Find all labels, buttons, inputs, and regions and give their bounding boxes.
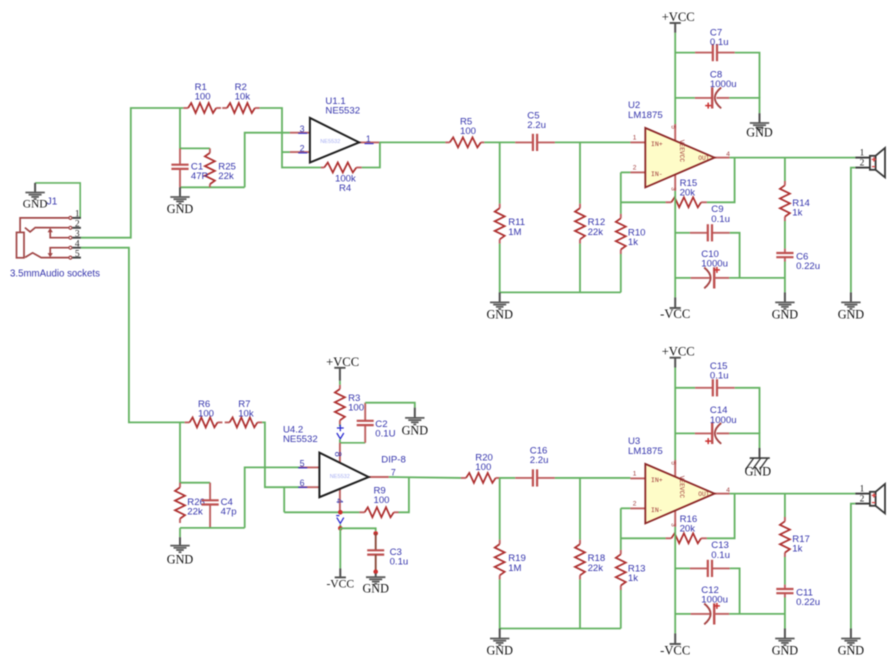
wire R14 branch down (784, 158, 786, 181)
capacitor C9 (690, 204, 730, 241)
wire C15 left (675, 387, 695, 389)
wire +VCC trunk 2 (674, 368, 676, 461)
resistor R4 (321, 163, 362, 173)
resistor R19 (495, 540, 526, 580)
svg-text:OUT: OUT (698, 155, 709, 162)
wire R18 branch (579, 478, 581, 540)
ground (772, 629, 799, 658)
svg-text:0.1u: 0.1u (710, 37, 729, 48)
wire C12 left (675, 613, 690, 615)
wire C3 branch (340, 528, 375, 531)
resistor R20 (461, 453, 500, 483)
net arrow V- (336, 516, 344, 524)
svg-text:GND: GND (746, 125, 773, 139)
resistor R2 (222, 82, 260, 113)
wire C7 left (675, 52, 695, 54)
svg-text:100: 100 (475, 462, 491, 473)
wire C2 bottom rail (340, 442, 365, 444)
svg-text:0.1u: 0.1u (711, 214, 730, 225)
power amp U3 LM1875 (630, 460, 730, 527)
wire jack pin3 to R1 (left channel input) (81, 108, 183, 238)
svg-text:IN+: IN+ (651, 477, 663, 484)
svg-text:1M: 1M (508, 563, 521, 574)
svg-text:10k: 10k (238, 409, 254, 420)
ground (838, 292, 865, 321)
wire R10 bottom (620, 254, 622, 292)
svg-text:4: 4 (75, 240, 80, 250)
svg-text:1: 1 (633, 471, 637, 478)
wire C8 right (729, 98, 759, 113)
svg-text:2: 2 (860, 159, 865, 169)
wire C7 right to GND rail (735, 53, 760, 98)
svg-text:GND: GND (167, 202, 194, 216)
wire R19 bottom (499, 580, 501, 629)
ground (362, 574, 389, 596)
wire jack pin4 down-trunk to R6 (right channel input) (81, 248, 185, 423)
wire R11 bottom (499, 244, 501, 293)
ground (23, 183, 48, 211)
wire R3 bottom (339, 425, 341, 427)
power symbol +VCC (662, 345, 695, 368)
svg-text:7: 7 (391, 467, 396, 477)
svg-text:VEEVCC: VEEVCC (678, 476, 685, 499)
capacitor C8 (polarized) (695, 70, 737, 109)
svg-text:2: 2 (633, 501, 637, 508)
wire R19 branch (499, 478, 501, 540)
wire input node down to C1/R25 top (180, 108, 210, 148)
svg-text:0.22u: 0.22u (796, 597, 820, 608)
svg-text:LM1875: LM1875 (628, 446, 663, 457)
svg-text:5: 5 (669, 461, 676, 465)
resistor R14 (780, 181, 811, 221)
capacitor C4 (202, 483, 237, 528)
resistor R11 (495, 204, 525, 244)
connector J1 3.5mm audio socket (17, 210, 81, 260)
wire C8 left (675, 97, 695, 99)
wire C16 to U3 IN+ (555, 477, 631, 479)
svg-text:1: 1 (366, 134, 371, 144)
svg-text:0.1u: 0.1u (710, 371, 729, 382)
svg-text:3: 3 (669, 187, 676, 191)
resistor R18 (575, 540, 605, 580)
capacitor C15 (695, 361, 735, 396)
svg-text:J1: J1 (47, 197, 58, 208)
resistor R26 (175, 483, 205, 523)
wire IN- wire (621, 171, 631, 173)
svg-text:0.22u: 0.22u (796, 261, 820, 272)
wire C10 right to R14 branch (729, 277, 785, 279)
wire R17 to C11 (784, 557, 786, 585)
wire C9 right down (730, 233, 740, 278)
svg-text:1M: 1M (508, 227, 521, 238)
wire R18 bottom (579, 580, 581, 629)
wire speaker return (851, 168, 855, 293)
svg-text:1000u: 1000u (710, 415, 737, 426)
junction (338, 526, 343, 531)
svg-text:DIP-8: DIP-8 (381, 454, 406, 465)
svg-text:1k: 1k (792, 544, 802, 555)
wire C5 to LM1875 IN+ (555, 141, 631, 143)
capacitor C1 (171, 148, 208, 187)
wire R26/C4 bottom rail (180, 527, 245, 529)
svg-text:R4: R4 (339, 183, 352, 194)
power amp U2 LM1875 (630, 124, 730, 191)
svg-text:22k: 22k (218, 171, 234, 182)
wire +VCC to R3 (339, 381, 341, 385)
resistor R7 (225, 399, 263, 427)
svg-text:NE5532: NE5532 (283, 434, 318, 445)
svg-text:-VCC: -VCC (660, 307, 690, 321)
connector J1 ground wire (35, 183, 80, 218)
junction (338, 510, 343, 515)
svg-text:8: 8 (333, 452, 343, 457)
svg-text:GND: GND (486, 307, 513, 321)
svg-text:IN-: IN- (651, 507, 663, 514)
wire speaker 2 return (851, 504, 855, 629)
svg-text:1k: 1k (628, 237, 638, 248)
wire op-amp output to R5 (379, 141, 445, 143)
capacitor C7 (695, 28, 735, 62)
wire R15 right up to output (707, 158, 735, 203)
junction (373, 531, 378, 536)
svg-text:3: 3 (75, 230, 80, 240)
ground (486, 292, 513, 321)
svg-text:20k: 20k (680, 188, 696, 199)
wire bottom rail to ground (500, 291, 621, 293)
op-amp U1.1 NE5532 (290, 118, 379, 163)
capacitor C10 (polarized) (691, 249, 730, 289)
capacitor C2 (357, 403, 396, 443)
wire trunk to R26/C4 (180, 422, 210, 482)
svg-text:GND: GND (167, 553, 194, 567)
wire C2 top to GND (365, 403, 415, 408)
wire U3 VEE down to -VCC (674, 527, 676, 634)
wire pin2 branch (282, 151, 290, 153)
capacitor C13 (690, 540, 730, 577)
wire GND stub (179, 528, 181, 537)
wire rail up to op-amp pin3 (245, 133, 290, 188)
wire feedback rail (284, 511, 359, 513)
svg-text:100: 100 (195, 92, 211, 103)
resistor R16 (666, 514, 707, 543)
svg-text:100: 100 (198, 409, 214, 420)
svg-text:5: 5 (300, 458, 305, 468)
svg-text:0.1u: 0.1u (711, 550, 730, 561)
capacitor C5 (515, 111, 555, 151)
svg-text:2.2u: 2.2u (530, 455, 549, 466)
svg-text:1k: 1k (792, 208, 802, 219)
wire R9 right up to pin7 output (399, 477, 409, 512)
svg-text:IN-: IN- (651, 171, 663, 178)
wire R16 right up to output (707, 494, 735, 539)
ground (486, 629, 513, 658)
capacitor C3 (367, 533, 408, 571)
ground (402, 408, 429, 438)
svg-text:IN+: IN+ (651, 141, 663, 148)
svg-text:OUT: OUT (698, 491, 709, 498)
op-amp U4.2 NE5532 (299, 443, 388, 513)
svg-text:-VCC: -VCC (660, 644, 690, 658)
svg-text:100: 100 (348, 403, 364, 414)
svg-text:2: 2 (75, 220, 80, 230)
ground (838, 629, 865, 658)
wire C14 right (729, 433, 759, 448)
resistor R12 (575, 204, 605, 244)
capacitor C6 (776, 249, 820, 272)
svg-text:+VCC: +VCC (662, 345, 695, 359)
wire to pin8 (339, 439, 341, 443)
wire R2 to inverting input / feedback rail (260, 108, 321, 168)
svg-text:5: 5 (669, 125, 676, 129)
resistor R17 (780, 517, 810, 557)
wire R5 out to C5 with R11 tee (484, 141, 515, 143)
svg-text:6: 6 (300, 478, 305, 488)
svg-text:NE5532: NE5532 (325, 106, 360, 117)
net arrow marks (337, 425, 344, 439)
svg-text:GND: GND (838, 307, 865, 321)
svg-text:1000u: 1000u (701, 258, 728, 269)
svg-text:VEEVCC: VEEVCC (678, 140, 685, 163)
svg-text:NE5532: NE5532 (330, 474, 350, 480)
svg-text:1: 1 (860, 485, 865, 495)
wire C13 right down (730, 568, 740, 614)
svg-text:GND: GND (23, 199, 48, 211)
svg-text:GND: GND (402, 423, 429, 437)
ground (167, 187, 194, 216)
resistor R9 (359, 486, 398, 518)
svg-text:22k: 22k (187, 506, 203, 517)
svg-text:GND: GND (486, 644, 513, 658)
power symbol -VCC (326, 569, 354, 591)
wire IN- node down (620, 172, 622, 214)
wire C9 left (675, 232, 690, 234)
resistor R6 (185, 399, 223, 427)
wire pin7 output to R20 (389, 476, 461, 479)
wire C14 left (675, 432, 695, 434)
power symbol -VCC (660, 297, 690, 321)
wire +VCC trunk (674, 33, 676, 124)
svg-text:3.5mmAudio sockets: 3.5mmAudio sockets (10, 268, 100, 279)
wire C6 bottom (784, 262, 786, 293)
svg-text:1000u: 1000u (701, 594, 728, 605)
resistor R5 (445, 116, 484, 147)
wire C15 right (735, 388, 760, 434)
speaker LS2 (855, 484, 885, 514)
svg-text:22k: 22k (588, 563, 604, 574)
svg-text:GND: GND (745, 465, 772, 479)
svg-text:100: 100 (460, 126, 476, 137)
wire bottom rail 2 (500, 628, 621, 630)
svg-text:+VCC: +VCC (326, 355, 359, 369)
wire U3 IN- node down (620, 508, 622, 550)
svg-text:22k: 22k (588, 227, 604, 238)
wire R20 to C16 (499, 477, 515, 479)
wire R13 bottom (620, 590, 622, 629)
wire R14 to C6 (784, 221, 786, 249)
svg-text:1000u: 1000u (710, 79, 737, 90)
svg-text:2.2u: 2.2u (527, 120, 546, 131)
wire feedback R15 left (621, 201, 666, 203)
wire R4 to op-amp output (362, 142, 380, 167)
wire U3 IN- wire (621, 507, 631, 509)
wire R11 branch (499, 142, 501, 203)
wire R12 bottom (579, 244, 581, 293)
svg-text:100: 100 (374, 495, 390, 506)
ground (167, 537, 194, 566)
svg-text:3: 3 (669, 523, 676, 527)
capacitor C16 (515, 446, 555, 487)
resistor R15 (666, 178, 707, 207)
capacitor C14 (polarized) (695, 405, 737, 444)
wire output to speaker 2 (730, 493, 856, 495)
svg-text:LM1875: LM1875 (628, 110, 663, 121)
svg-text:4: 4 (334, 498, 344, 503)
svg-text:1: 1 (633, 135, 637, 142)
capacitor C11 (776, 585, 820, 608)
resistor R10 (616, 214, 646, 254)
svg-text:2: 2 (633, 165, 637, 172)
ground (772, 292, 799, 321)
power symbol +VCC (326, 355, 359, 381)
svg-text:1k: 1k (628, 573, 638, 584)
resistor R1 (183, 82, 221, 113)
svg-text:1: 1 (860, 149, 865, 159)
wire output to speaker (730, 157, 856, 159)
wire R7 to inverting input / feedback (262, 422, 299, 487)
junction (373, 569, 378, 574)
wire C1/R25 bottom rail (180, 186, 245, 188)
wire pin4 to -VCC (339, 525, 341, 529)
speaker LS1 (855, 148, 885, 178)
wire R17 branch down (784, 494, 786, 517)
ground (746, 113, 773, 139)
wire feedback R16 left (621, 537, 666, 539)
wire rail up to op-amp pin5 (245, 467, 300, 528)
svg-text:GND: GND (772, 644, 799, 658)
chassis ground (745, 448, 772, 479)
svg-text:3: 3 (300, 124, 305, 134)
svg-text:2: 2 (860, 495, 865, 505)
wire pin6 down branch (283, 487, 285, 512)
resistor R3 (335, 385, 364, 425)
svg-text:10k: 10k (235, 92, 251, 103)
svg-text:NE5532: NE5532 (320, 139, 340, 145)
capacitor C12 (polarized) (691, 585, 730, 625)
svg-text:+VCC: +VCC (662, 10, 695, 24)
resistor R25 (205, 148, 236, 187)
svg-text:1: 1 (75, 210, 80, 220)
svg-text:0.1U: 0.1U (375, 429, 395, 440)
svg-text:47P: 47P (191, 171, 208, 182)
wire C10 left (675, 277, 690, 279)
svg-text:5: 5 (75, 249, 80, 259)
power symbol +VCC (662, 10, 695, 33)
svg-text:2: 2 (300, 143, 305, 153)
wire VEE down to -VCC (674, 191, 676, 298)
svg-text:20k: 20k (680, 524, 696, 535)
svg-text:-VCC: -VCC (326, 577, 354, 590)
wire R12 branch (579, 142, 581, 203)
resistor R13 (616, 550, 646, 590)
svg-text:47p: 47p (221, 506, 237, 517)
svg-text:GND: GND (362, 582, 389, 596)
wire C11 bottom (784, 598, 786, 629)
svg-text:GND: GND (838, 644, 865, 658)
wire C12 right to R17 branch (729, 613, 785, 615)
power symbol -VCC (660, 633, 690, 657)
svg-text:0.1u: 0.1u (390, 557, 409, 568)
svg-text:GND: GND (772, 307, 799, 321)
wire -VCC branch (339, 528, 341, 568)
wire C13 left (675, 567, 690, 569)
